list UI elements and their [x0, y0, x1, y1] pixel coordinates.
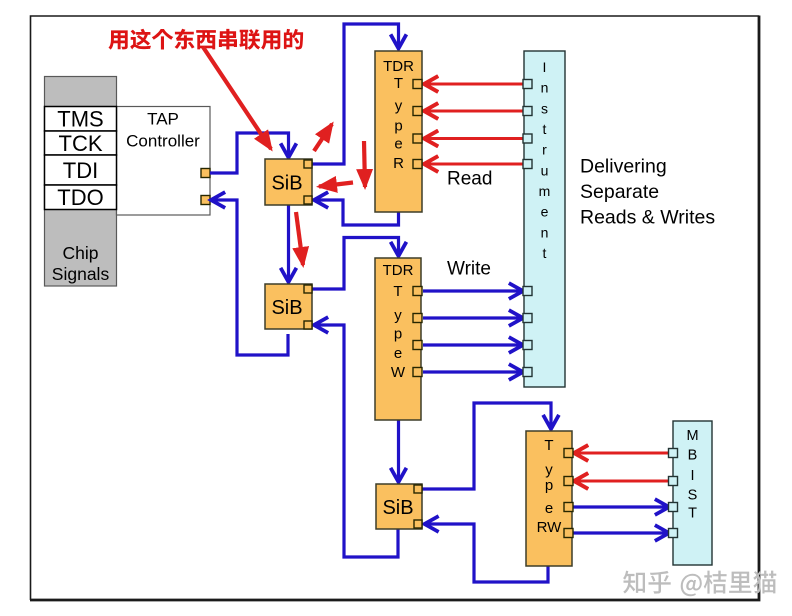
pin TDI on TAP controller — [201, 169, 210, 178]
svg-text:s: s — [541, 100, 548, 116]
svg-text:TCK: TCK — [59, 131, 103, 156]
wire W1: TDI to SiB1 top — [210, 133, 289, 173]
svg-text:T: T — [393, 283, 402, 300]
svg-text:RW: RW — [537, 519, 563, 536]
svg-text:TAP: TAP — [147, 110, 179, 129]
TDR TypeW U6 — [375, 258, 422, 420]
svg-text:Controller: Controller — [126, 132, 200, 151]
SiB U3 (middle) — [265, 284, 312, 329]
svg-text:TDR: TDR — [383, 262, 414, 279]
wire W6a: TDR TypeW pin1 to Instrument — [423, 289, 523, 292]
svg-text:e: e — [541, 204, 549, 220]
svg-text:n: n — [541, 224, 549, 240]
svg-text:T: T — [688, 506, 697, 522]
wire W9b: TypeRW pin4 to MBIST — [573, 531, 669, 534]
wire W9a: TypeRW pin3 to MBIST — [573, 505, 669, 508]
SiB U4 (bottom) — [376, 484, 422, 529]
svg-text:R: R — [393, 155, 404, 172]
svg-text:SiB: SiB — [382, 497, 413, 519]
red read arrow R4 — [424, 163, 523, 166]
TDR TypeRW U7 — [526, 431, 573, 566]
svg-text:SiB: SiB — [271, 297, 302, 319]
TDR TypeR U5 — [375, 51, 422, 212]
wire W10: TypeRW bottom to SiB3 bottom pin — [425, 524, 549, 582]
svg-text:u: u — [541, 162, 549, 178]
red read arrow R1: Instrument to TDR TypeR pin1 — [424, 83, 523, 86]
wire W3: TDR TypeR bottom to SiB1 bottom pin — [314, 200, 399, 225]
svg-text:t: t — [543, 121, 547, 137]
port row TMS — [45, 107, 117, 132]
red annotation arrow RD: into SiB1 right edge — [319, 183, 353, 187]
label Delivering Separate Reads & Writes — [580, 156, 715, 229]
red annotation arrow RC: down along TDR TypeR left edge — [364, 141, 365, 187]
svg-text:Reads & Writes: Reads & Writes — [580, 207, 715, 229]
svg-text:Write: Write — [447, 259, 491, 280]
wire W11: SiB3 bottom to SiB2 bottom pin — [314, 325, 398, 557]
svg-text:Read: Read — [447, 169, 492, 190]
red annotation arrow RB: up-right near SiB1 — [314, 124, 332, 151]
wire W6d: TDR TypeW pin4 to Instrument — [423, 370, 523, 373]
svg-text:y: y — [545, 462, 553, 479]
red annotation arrow RE: SiB1 to SiB2 — [296, 212, 303, 265]
svg-text:S: S — [688, 488, 698, 504]
svg-text:p: p — [545, 477, 553, 494]
red annotation text — [108, 29, 303, 50]
wire W2: SiB1 top pin to TDR TypeR top — [312, 24, 399, 164]
svg-text:Signals: Signals — [52, 264, 110, 284]
MBIST block U9 — [669, 421, 713, 565]
svg-text:B: B — [688, 448, 698, 464]
port row TDO — [45, 185, 117, 210]
svg-text:SiB: SiB — [271, 173, 302, 195]
svg-text:t: t — [543, 245, 547, 261]
red read arrow R3 — [424, 137, 523, 140]
red read arrow R2 — [424, 110, 523, 113]
svg-text:T: T — [394, 75, 403, 92]
svg-text:M: M — [686, 428, 698, 444]
watermark — [623, 571, 776, 597]
wire W5: SiB2 top pin to TDR TypeW top — [312, 238, 399, 290]
port row TDI — [45, 155, 117, 185]
wire W4: SiB1 bottom to SiB2 top — [287, 205, 290, 282]
TAP controller box U1 — [117, 107, 211, 216]
wire W6b: TDR TypeW pin2 to Instrument — [423, 316, 523, 319]
svg-text:TDR: TDR — [383, 58, 414, 75]
svg-text:Chip: Chip — [63, 243, 99, 263]
Instrument block U8 — [523, 51, 565, 387]
wire W7: TDR TypeW bottom to SiB3 top — [397, 420, 400, 482]
svg-text:I: I — [690, 468, 694, 484]
SiB U2 (top) — [265, 159, 312, 205]
red read arrow R6: MBIST to TypeRW pin2 — [574, 480, 669, 483]
svg-text:e: e — [394, 345, 402, 362]
svg-text:e: e — [394, 136, 402, 153]
red read arrow R5: MBIST to TypeRW pin1 — [574, 452, 669, 455]
svg-text:I: I — [543, 59, 547, 75]
svg-text:Separate: Separate — [580, 181, 659, 203]
red annotation arrow RA: text to SiB1 — [203, 47, 271, 149]
svg-text:m: m — [539, 183, 551, 199]
pin TDO on TAP controller — [201, 196, 210, 205]
svg-text:Delivering: Delivering — [580, 156, 667, 178]
svg-text:y: y — [394, 307, 402, 324]
svg-text:TDI: TDI — [63, 158, 98, 183]
svg-text:r: r — [542, 142, 547, 158]
svg-text:TDO: TDO — [57, 185, 103, 210]
port row TCK — [45, 131, 117, 156]
chip signals label — [52, 243, 110, 284]
wire W6c: TDR TypeW pin3 to Instrument — [423, 343, 523, 346]
svg-text:p: p — [394, 118, 402, 135]
wire W8: SiB3 top pin to TypeRW top — [422, 403, 551, 489]
svg-text:n: n — [541, 80, 549, 96]
svg-text:T: T — [544, 437, 553, 454]
svg-text:y: y — [395, 98, 403, 115]
wire W12: SiB2 bottom to TDO pin — [211, 200, 288, 355]
svg-text:p: p — [394, 326, 402, 343]
svg-text:W: W — [391, 364, 406, 381]
svg-text:TMS: TMS — [57, 107, 103, 132]
svg-text:e: e — [545, 500, 553, 517]
chip signals gray column — [45, 77, 117, 287]
